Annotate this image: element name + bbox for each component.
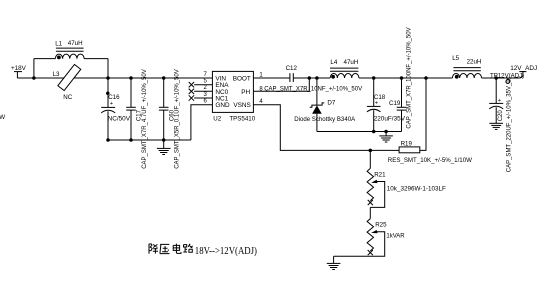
wire VSNS pin jog down (253, 105, 399, 151)
label D7 (327, 100, 335, 107)
wire NC0 stub (194, 90, 212, 92)
wire C17 bottom lead (130, 110, 132, 140)
wire C18 top lead (373, 78, 375, 106)
caption chinese 降压电路 (149, 244, 193, 254)
pin number 3 (203, 92, 207, 98)
wire R21 to R25 (369, 207, 371, 218)
wire C18 bottom lead (373, 110, 375, 131)
label R21 (374, 172, 386, 179)
value C19 CAP_SMT_X7R_100NF (vertical) (406, 27, 412, 128)
capacitor C18 (polarized) (367, 101, 381, 112)
label C20 (vertical) (498, 110, 504, 122)
node C17 top junction (129, 76, 133, 80)
node D7 top junction (315, 76, 319, 80)
resistor R19 (399, 147, 420, 153)
refdes U2 (213, 116, 221, 123)
svg-text:C12: C12 (286, 65, 298, 72)
svg-text:CAP_SMT_X7R_100NF_+/-10%_50V: CAP_SMT_X7R_100NF_+/-10%_50V (406, 27, 412, 128)
wire C16 top lead (107, 78, 109, 107)
no-connect X on R25 bottom (368, 250, 373, 255)
label C60 (vertical) (169, 109, 175, 121)
svg-text:W: W (0, 114, 5, 121)
wire D7 anode lead (316, 114, 318, 132)
power flag +18V (11, 65, 27, 78)
node C18 bottom junction (372, 130, 376, 134)
label W (clipped text at left edge) (0, 114, 5, 121)
node C16 bottom junction (106, 138, 110, 142)
svg-text:R25: R25 (375, 222, 387, 229)
label C16 (108, 94, 120, 101)
label L1 47uH (55, 40, 82, 48)
node C19 top junction (400, 76, 404, 80)
svg-text:220uF/35V: 220uF/35V (374, 116, 406, 123)
value C12 CAP_SMT_X7R_10NF (264, 86, 362, 92)
capacitor C16 (polarized, NC) (101, 101, 115, 113)
svg-text:CAP_SMT_X5R_0.1UF_+/-10%_50V: CAP_SMT_X5R_0.1UF_+/-10%_50V (175, 69, 181, 169)
value 220uF/35V (374, 116, 406, 123)
wire output ground rail (317, 131, 402, 133)
op-amp U2 TPS5410 body (212, 71, 253, 112)
label L5 22uH (452, 55, 481, 66)
wire C17 top lead (130, 78, 132, 107)
wire C12 to L4 (293, 77, 330, 79)
potentiometer R25 (367, 219, 377, 251)
label R19 (401, 141, 413, 148)
wire output rail L4 to L5 (359, 77, 453, 79)
wire L1 top right segment (84, 58, 108, 60)
potentiometer R21 (367, 168, 377, 200)
svg-text:47uH: 47uH (68, 40, 83, 47)
wire L5 to output flag (482, 72, 523, 78)
svg-text:BOOT: BOOT (233, 76, 251, 83)
svg-text:CAP_SMT_220UF_+/-10%_35V_D: CAP_SMT_220UF_+/-10%_35V_D (507, 78, 513, 173)
svg-text:NC/50V: NC/50V (108, 115, 131, 122)
wire BOOT pin to C12 (253, 77, 290, 79)
capacitor C17 (126, 107, 136, 110)
svg-text:CAP_SMT_X7R_10NF_+/-10%_50V: CAP_SMT_X7R_10NF_+/-10%_50V (264, 86, 362, 92)
pin number 5 (203, 79, 207, 85)
value RES_SMT_10K (388, 157, 472, 164)
svg-text:U2: U2 (213, 116, 221, 123)
no-connect X on NC1 (189, 95, 194, 100)
svg-text:GND: GND (215, 102, 230, 109)
node rail/C16 junction (106, 76, 110, 80)
ground under C20 (489, 123, 503, 129)
wire GND pin jog (191, 105, 213, 140)
svg-text:L5: L5 (452, 55, 459, 62)
label C12 (286, 65, 298, 72)
pin number 7 (203, 72, 207, 78)
node PH/BOOT junction (308, 76, 312, 80)
wire R25 wiper bypass to ground (334, 232, 385, 257)
value TPS5410 (229, 116, 255, 123)
svg-text:10k_3296W-1-103LF: 10k_3296W-1-103LF (387, 185, 446, 192)
node R19 riser junction (424, 76, 428, 80)
svg-text:C20: C20 (498, 110, 504, 122)
svg-text:18V-->12V(ADJ): 18V-->12V(ADJ) (195, 246, 257, 257)
value 10k_3296W-1-103LF (387, 185, 446, 192)
wire NC1 stub (194, 97, 212, 99)
svg-text:22uH: 22uH (467, 59, 482, 66)
svg-text:D7: D7 (327, 100, 335, 107)
node C17 bottom junction (129, 138, 133, 142)
svg-text:C19: C19 (389, 100, 401, 107)
pin label VIN (215, 76, 226, 83)
label NC for L3 (63, 94, 72, 101)
svg-text:+18V: +18V (11, 65, 27, 72)
svg-text:CAP_SMT_X7R_4.7UF_+/-10%_50V: CAP_SMT_X7R_4.7UF_+/-10%_50V (142, 69, 148, 169)
wire ENA stub (194, 84, 212, 86)
svg-text:Diode Schottky B340A: Diode Schottky B340A (294, 116, 356, 123)
ground input section (157, 140, 171, 155)
inductor L4 (330, 68, 359, 79)
node C60 bottom junction (162, 138, 166, 142)
pin label GND (215, 102, 230, 109)
svg-text:47uH: 47uH (344, 59, 359, 66)
diode D7 schottky (310, 103, 325, 114)
svg-text:12V_ADJ: 12V_ADJ (510, 65, 537, 72)
label C17 (vertical) (137, 109, 143, 121)
svg-text:R21: R21 (374, 172, 386, 179)
label L3 (53, 71, 60, 78)
node ground stem junction (384, 130, 388, 134)
pin label BOOT (233, 76, 251, 83)
node C20 top junction (494, 76, 498, 80)
inductor L1 (55, 48, 84, 59)
node C18 top junction (372, 76, 376, 80)
svg-text:C16: C16 (108, 94, 120, 101)
label L4 47uH (330, 59, 358, 66)
capacitor C60 (159, 107, 169, 110)
wire L1 loop left riser (33, 59, 35, 78)
wire L1 loop right riser (107, 59, 109, 78)
wire L1 top left segment (34, 58, 56, 60)
ground bottom section (327, 256, 341, 269)
svg-text:C18: C18 (374, 94, 386, 101)
label R25 (375, 222, 387, 229)
testpoint TP circle (506, 78, 510, 84)
pin label NC0 (215, 89, 228, 96)
no-connect X on ENA (189, 82, 194, 87)
wire C20 bottom lead (495, 107, 497, 123)
svg-text:NC: NC (63, 94, 72, 101)
pin label VSNS (233, 102, 250, 109)
inductor L3 (NC, rotated) (58, 64, 81, 90)
capacitor C20 (polarized) (489, 98, 503, 109)
pin number 8 (259, 86, 263, 92)
wire C60 top lead (163, 78, 165, 107)
ground output section (379, 132, 393, 143)
wire R19 to output rail (420, 78, 426, 150)
svg-text:VSNS: VSNS (233, 102, 250, 109)
pin number 4 (259, 99, 263, 105)
value 1kVAR (386, 234, 405, 240)
node C16 top terminal dot (106, 92, 110, 96)
svg-text:RES_SMT_10K_+/-5%_1/10W: RES_SMT_10K_+/-5%_1/10W (388, 157, 472, 164)
no-connect X on R21 bottom (368, 200, 373, 205)
pin label NC1 (215, 96, 228, 103)
svg-text:L4: L4 (330, 59, 337, 66)
wire C19 bottom lead (401, 110, 403, 131)
svg-text:PH: PH (241, 89, 250, 96)
label TP12V(ADJ) (490, 72, 524, 79)
label NC/50V (108, 115, 131, 122)
wire C19 top lead (401, 78, 403, 107)
svg-text:L1: L1 (55, 40, 62, 47)
capacitor C19 (397, 107, 407, 110)
wire feedback to R21 (369, 150, 371, 168)
power flag 12V_ADJ (510, 65, 537, 72)
value C17 CAP_SMT_X7R_4.7UF (vertical) (142, 69, 148, 169)
value C60 CAP_SMT_X5R_0.1UF (vertical) (175, 69, 181, 169)
wire D7 cathode lead (316, 78, 318, 105)
capacitor C12 (290, 73, 293, 82)
wire C20 top lead (495, 78, 497, 103)
wire R21 wiper bypass (370, 182, 384, 208)
wire C60 bottom lead (163, 110, 165, 140)
pin number 2 (203, 85, 207, 91)
wire PH pin jog up (253, 78, 309, 91)
pin number 1 (259, 72, 263, 78)
node input-rail / L1 junction A (32, 76, 36, 80)
value C20 CAP_SMT_220UF (vertical) (507, 78, 513, 173)
wire ground rail under input caps (108, 139, 191, 141)
wire C16 bottom lead (107, 111, 109, 140)
wire input rail +18V to VIN pin 7 (17, 77, 212, 79)
no-connect X on NC0 (189, 89, 194, 94)
inductor L5 (452, 68, 481, 79)
svg-text:R19: R19 (401, 141, 413, 148)
svg-text:L3: L3 (53, 71, 60, 78)
pin number 6 (203, 99, 207, 105)
pin label ENA (215, 82, 229, 89)
node feedback junction (369, 149, 373, 153)
node C60 top junction (162, 76, 166, 80)
svg-text:1kVAR: 1kVAR (386, 234, 405, 240)
label C19 (389, 100, 401, 107)
pin label PH (241, 89, 250, 96)
value Diode Schottky B340A (294, 116, 356, 123)
svg-text:TPS5410: TPS5410 (229, 116, 255, 123)
label C18 (374, 94, 386, 101)
